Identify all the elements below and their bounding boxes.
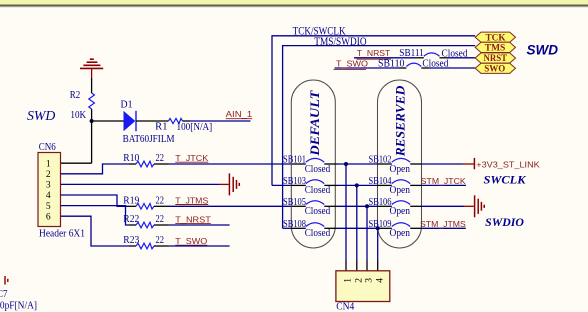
svg-text:Closed: Closed xyxy=(305,164,331,175)
top sheet border band xyxy=(0,0,588,5)
wire R22 stub xyxy=(154,224,169,226)
wire row2 SB103 xyxy=(272,184,291,186)
svg-text:SB109: SB109 xyxy=(369,219,392,230)
wire R2 to junction xyxy=(91,109,93,121)
wire row4 SB108 xyxy=(283,227,292,229)
resistor R19 22 xyxy=(136,204,154,210)
svg-text:DEFAULT: DEFAULT xyxy=(307,89,322,156)
node row2/CN4-2 xyxy=(355,183,359,187)
capacitor C7 fragment (clipped at left edge) xyxy=(5,276,8,285)
node row1/CN4-1 xyxy=(344,162,348,166)
svg-text:T_JTMS: T_JTMS xyxy=(175,196,208,206)
svg-text:SB108: SB108 xyxy=(283,219,306,230)
resistor R22 22 xyxy=(136,222,154,228)
wire SB109 to STM_JTMS xyxy=(410,227,421,229)
svg-text:SB105: SB105 xyxy=(283,197,306,208)
svg-text:SWD: SWD xyxy=(527,43,559,58)
resistor R10 22 xyxy=(136,161,154,167)
svg-text:Closed: Closed xyxy=(305,206,331,217)
ground (right of SB106) xyxy=(464,195,484,217)
wire CN4 pin1 vertical xyxy=(345,164,347,261)
svg-text:SWO: SWO xyxy=(484,65,505,75)
wire R23 stub xyxy=(154,245,169,247)
svg-text:TMS/SWDIO: TMS/SWDIO xyxy=(314,34,367,48)
svg-text:R10: R10 xyxy=(123,153,139,164)
svg-text:R2: R2 xyxy=(70,90,81,101)
svg-text:D1: D1 xyxy=(121,99,133,110)
svg-text:Open: Open xyxy=(390,164,411,175)
resistor R1 xyxy=(169,118,183,123)
power +3V3_ST_LINK xyxy=(463,163,474,165)
svg-text:SWCLK: SWCLK xyxy=(484,175,527,187)
svg-text:T_JTCK: T_JTCK xyxy=(175,153,208,163)
svg-text:STM_JTCK: STM_JTCK xyxy=(421,176,466,186)
wire SB108 to SB109 xyxy=(324,227,337,229)
svg-text:100pF[N/A]: 100pF[N/A] xyxy=(0,301,37,312)
port TMS xyxy=(475,42,515,53)
node row4/CN4-4 xyxy=(376,226,380,230)
wire junction down to CN6 pin 1 xyxy=(91,121,93,163)
svg-text:SB101: SB101 xyxy=(283,155,306,166)
svg-text:Open: Open xyxy=(390,228,411,239)
svg-text:5: 5 xyxy=(46,202,51,212)
wire junction to D1 xyxy=(92,120,124,122)
port NRST xyxy=(475,53,515,64)
svg-text:T_NRST: T_NRST xyxy=(175,214,211,224)
wire CN6 pin6 to R23 row xyxy=(61,216,129,246)
svg-text:10K: 10K xyxy=(70,110,87,121)
svg-text:STM_JTMS: STM_JTMS xyxy=(420,219,466,229)
svg-text:R1: R1 xyxy=(155,121,167,132)
wire SB106 to ground xyxy=(410,205,421,207)
wire CN4 pin2 vertical xyxy=(356,185,358,260)
node junction R2/D1/CN6 xyxy=(90,119,94,123)
svg-text:2: 2 xyxy=(46,170,51,180)
svg-text:BAT60JFILM: BAT60JFILM xyxy=(123,134,175,145)
svg-text:SB104: SB104 xyxy=(369,176,392,187)
svg-text:3: 3 xyxy=(46,181,51,191)
svg-text:4: 4 xyxy=(375,278,385,283)
svg-text:SB106: SB106 xyxy=(369,197,392,208)
wire CN6 pin3 to ground xyxy=(61,183,219,185)
connector CN4 xyxy=(336,271,390,302)
node row3/CN4-3 xyxy=(365,204,369,208)
port SWO xyxy=(475,63,515,74)
svg-text:CN6: CN6 xyxy=(39,142,56,153)
wire R19 to SB105 xyxy=(154,205,169,207)
svg-text:22: 22 xyxy=(156,153,165,164)
wire D1 to R1 xyxy=(136,120,169,122)
svg-text:R22: R22 xyxy=(123,214,139,225)
svg-text:+3V3_ST_LINK: +3V3_ST_LINK xyxy=(476,159,540,169)
svg-text:SB103: SB103 xyxy=(283,176,306,187)
wire ground to R2 xyxy=(91,78,93,93)
wire SB101 to SB102 xyxy=(324,163,337,165)
svg-text:CN4: CN4 xyxy=(336,302,354,312)
port TCK xyxy=(475,32,515,43)
svg-text:4: 4 xyxy=(46,191,51,201)
svg-text:Open: Open xyxy=(390,206,411,217)
svg-text:C7: C7 xyxy=(0,289,8,300)
svg-text:SWD: SWD xyxy=(27,109,55,124)
resistor R23 22 xyxy=(136,243,154,249)
svg-text:R19: R19 xyxy=(123,196,139,207)
svg-text:R23: R23 xyxy=(123,235,139,246)
wire SB102 to +3V3 xyxy=(410,163,421,165)
wire SB103 to SB104 xyxy=(324,184,337,186)
group box RESERVED xyxy=(378,80,422,248)
svg-text:RESERVED: RESERVED xyxy=(393,85,408,157)
svg-text:T_SWO: T_SWO xyxy=(336,58,369,68)
svg-text:22: 22 xyxy=(156,196,165,207)
connector CN6 xyxy=(38,153,61,227)
resistor R2 xyxy=(89,93,95,109)
wire CN6 pin5 to R22 row xyxy=(61,206,129,225)
svg-text:SWDIO: SWDIO xyxy=(485,217,524,229)
diode D1 BAT60JFILM xyxy=(124,111,136,132)
wire CN6 pin4 to R19 row xyxy=(61,195,129,206)
svg-text:6: 6 xyxy=(46,212,51,222)
svg-text:2: 2 xyxy=(354,278,364,283)
svg-text:3: 3 xyxy=(365,278,375,283)
wire SB105 to SB106 xyxy=(324,205,337,207)
svg-text:SB110: SB110 xyxy=(378,58,405,69)
wire R1 to AIN_1 xyxy=(190,120,251,122)
wire CN6 pin2 to R10 row xyxy=(61,164,129,174)
wire R10 to SB101 xyxy=(154,163,169,165)
wire T_NRST row xyxy=(354,57,416,59)
svg-text:1: 1 xyxy=(344,278,354,283)
svg-text:SB102: SB102 xyxy=(369,155,392,166)
wire CN4 pin3 vertical xyxy=(366,206,368,260)
wire TCK/SWCLK xyxy=(272,36,475,186)
ground (top, above R2) xyxy=(80,59,103,78)
wire T_SWO row xyxy=(335,67,400,69)
svg-text:Open: Open xyxy=(390,185,411,196)
wire CN4 pin4 vertical xyxy=(377,228,379,260)
svg-text:1: 1 xyxy=(46,159,51,169)
svg-text:100[N/A]: 100[N/A] xyxy=(177,122,213,133)
svg-text:T_SWO: T_SWO xyxy=(175,236,208,246)
svg-text:Closed: Closed xyxy=(305,228,331,239)
svg-text:NRST: NRST xyxy=(484,54,508,64)
svg-text:AIN_1: AIN_1 xyxy=(226,109,253,119)
svg-text:Closed: Closed xyxy=(422,59,448,70)
svg-text:Closed: Closed xyxy=(305,185,331,196)
svg-text:T_NRST: T_NRST xyxy=(357,48,391,58)
svg-text:22: 22 xyxy=(156,214,165,225)
svg-text:TMS: TMS xyxy=(485,44,506,54)
wire TMS/SWDIO xyxy=(283,46,476,229)
ground (pin3, pointing right) xyxy=(219,173,239,195)
wire SB104 to STM_JTCK xyxy=(410,184,421,186)
svg-text:Header 6X1: Header 6X1 xyxy=(39,228,85,239)
group box DEFAULT xyxy=(291,80,335,248)
svg-text:22: 22 xyxy=(156,235,165,246)
